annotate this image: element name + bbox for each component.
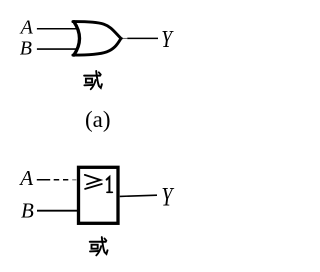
label 或 under gate G2 (drawn glyph) (90, 237, 108, 255)
wire B input to G1 (37, 48, 79, 50)
OR gate G2 (IEC rectangular symbol) (79, 167, 119, 223)
wire A input to G1 (37, 28, 79, 30)
wire B2 input to G2 (37, 210, 79, 212)
svg-text:Y: Y (161, 183, 175, 212)
svg-text:A: A (19, 17, 34, 39)
svg-text:B: B (21, 198, 34, 222)
label 或 under gate G1 (drawn glyph) (84, 71, 102, 89)
svg-text:(a): (a) (85, 107, 111, 132)
wire G1 output (121, 37, 123, 39)
label &#8805;1 inside G2 (85, 175, 113, 192)
svg-text:A: A (18, 166, 33, 190)
svg-text:Y: Y (161, 25, 174, 53)
svg-text:B: B (20, 38, 32, 60)
OR gate G1 (distinctive shape) (73, 22, 121, 56)
wire G2 output (120, 195, 157, 196)
wire A2 input to G2 (partly faded in print) (37, 179, 69, 181)
